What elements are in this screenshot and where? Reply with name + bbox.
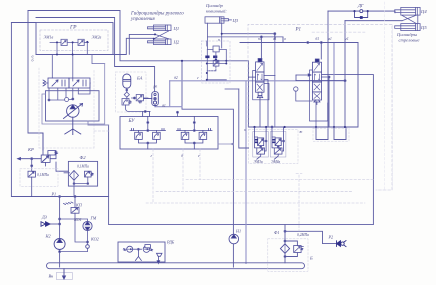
wire supply bus light <box>155 34 346 264</box>
wire port <box>207 63 227 65</box>
wire stub to BU <box>177 112 179 117</box>
wire ctrl dash 3 <box>146 202 365 204</box>
svg-text:б: б <box>32 58 35 63</box>
node n1 <box>48 99 50 101</box>
node r2 <box>274 33 276 35</box>
block dashed U box <box>313 128 349 141</box>
block dashed КР box <box>20 169 58 187</box>
block ГР solid box <box>36 23 113 55</box>
node e2 <box>265 140 267 142</box>
block dashed around <box>202 41 231 83</box>
filter Ф1 <box>280 244 289 254</box>
R1_BLOCK <box>218 24 392 190</box>
node g2 <box>72 41 74 43</box>
svg-text:ДЗ: ДЗ <box>41 215 47 220</box>
svg-text:0,2МПа: 0,2МПа <box>297 233 309 238</box>
wire bus a1 <box>240 34 358 59</box>
svg-text:в1: в1 <box>329 37 333 41</box>
svg-text:Ц5: Ц5 <box>420 25 427 30</box>
wire outer top loop to R1 <box>28 11 249 128</box>
node v3 <box>284 256 286 258</box>
valve upper box <box>213 46 219 52</box>
node u3 <box>147 142 149 144</box>
svg-text:Ц1: Ц1 <box>173 26 180 31</box>
svg-text:г1: г1 <box>346 37 349 41</box>
KR_F2 <box>18 133 98 197</box>
svg-text:Цилиндры: Цилиндры <box>396 32 417 37</box>
valve 2b <box>199 132 207 139</box>
svg-text:д2: д2 <box>174 76 178 80</box>
node k5 <box>221 33 223 35</box>
svg-text:х: х <box>243 128 246 132</box>
valve П1 pilot check <box>144 92 158 106</box>
wire boom piping <box>345 20 402 22</box>
wire БУ out right <box>218 143 234 145</box>
valve 1b <box>153 132 161 139</box>
node q6 <box>59 251 61 253</box>
valve Р1 left spool <box>249 59 276 128</box>
node q1 <box>74 196 76 198</box>
svg-text:ЭМ2в: ЭМ2в <box>92 35 102 40</box>
valve 2a <box>181 132 189 139</box>
svg-text:Р1: Р1 <box>51 192 57 197</box>
drain symbol <box>135 249 141 260</box>
svg-text:ГР: ГР <box>69 25 77 31</box>
node v1 <box>284 230 286 232</box>
svg-text:КО2: КО2 <box>90 237 99 242</box>
node u4 <box>193 122 195 124</box>
wire БА out <box>143 112 150 117</box>
valve lower box <box>213 60 219 66</box>
node k2 <box>225 63 227 65</box>
node q3 <box>59 218 61 220</box>
valve КП relief <box>64 197 80 221</box>
svg-text:д1: д1 <box>162 104 166 108</box>
wire dark staircase to pump H1 <box>182 61 233 267</box>
wire П1 drop <box>154 106 156 107</box>
wire X crossing steering <box>154 31 169 39</box>
block Р1 dashed box <box>248 24 392 190</box>
node d1 <box>353 10 355 12</box>
block НА solid box <box>46 91 100 121</box>
coupling Р2 <box>337 241 347 247</box>
svg-text:Р1: Р1 <box>295 28 302 33</box>
node g3 <box>86 41 88 43</box>
wire left vertical to KR <box>28 11 43 151</box>
node k1 <box>206 63 208 65</box>
block dashed ЭМ box <box>249 130 299 164</box>
wire pilot bus y127 <box>249 11 359 127</box>
node u6 <box>193 142 195 144</box>
wire x239 drop <box>239 89 249 148</box>
node b1 <box>133 97 135 99</box>
svg-text:ДГ: ДГ <box>357 3 364 8</box>
pump Н1 <box>229 234 239 244</box>
svg-text:ковшовый:: ковшовый: <box>206 9 227 14</box>
valve group 1 rail <box>130 117 166 150</box>
RDB_TANK <box>47 225 347 280</box>
node j2 <box>265 126 267 128</box>
wire return line bottom long <box>109 75 374 225</box>
valve ДЗ <box>41 222 60 227</box>
wire steering line 2 <box>129 34 155 54</box>
motor ГМ <box>83 221 92 230</box>
node e3 <box>277 146 279 148</box>
svg-text:п: п <box>218 38 220 42</box>
node u5 <box>193 130 195 132</box>
svg-text:0,1МПа: 0,1МПа <box>37 173 49 178</box>
valve ЭМ2в <box>78 39 89 45</box>
wire case line <box>88 121 109 125</box>
GR_BLOCK <box>32 23 114 82</box>
node e5 <box>271 126 273 128</box>
valve ЭМ1в <box>50 39 78 45</box>
wire ctrl dash 2 <box>156 190 352 192</box>
block Ф2 box <box>68 161 97 186</box>
valve БА charge <box>132 95 149 103</box>
svg-text:Б: Б <box>309 256 313 261</box>
pump Н2 <box>54 239 65 250</box>
gauge circle МН2 <box>294 87 298 91</box>
node q2 <box>87 241 89 243</box>
filter Ф2 diamond <box>70 171 79 181</box>
NA_BLOCK <box>39 55 109 149</box>
wire second loop to P1 <box>36 18 155 92</box>
svg-text:Ц2: Ц2 <box>173 40 180 45</box>
svg-text:е: е <box>198 154 200 158</box>
MAIN_LINES <box>11 11 373 268</box>
valve ЭМ4в <box>270 127 286 159</box>
node g4 <box>56 54 58 56</box>
svg-text:Ф2: Ф2 <box>80 155 87 160</box>
check valve triangle <box>214 58 218 61</box>
wire to Р2 <box>285 231 336 243</box>
block БУ box <box>120 117 218 150</box>
pump variable circle <box>64 104 83 119</box>
node kr1 <box>31 158 33 160</box>
svg-text:Ф1: Ф1 <box>274 230 279 235</box>
wire ctrl dash right frame <box>376 2 393 190</box>
wire left border <box>11 23 108 197</box>
svg-text:г: г <box>151 154 153 158</box>
P1_VALVE <box>144 76 199 117</box>
valve 01МПа relief <box>28 171 35 196</box>
wire pump drain <box>65 117 81 134</box>
node j0 <box>181 60 183 62</box>
BU_BLOCK <box>120 117 234 159</box>
wire ctrl dash small <box>94 130 109 132</box>
wire steering feed staircase <box>36 38 154 54</box>
wire U loops <box>316 127 346 140</box>
node q4 <box>59 196 61 198</box>
node r7 <box>344 80 346 82</box>
node k4 <box>206 79 208 81</box>
sensor ДГ <box>328 10 395 12</box>
svg-text:Вн: Вн <box>49 274 54 279</box>
node r3 <box>307 42 309 44</box>
wire ctrl dash 1 <box>186 179 374 181</box>
node p1 <box>154 98 156 100</box>
EM_CLUSTER <box>225 89 303 164</box>
svg-text:управления: управления <box>130 17 155 22</box>
valve Вн drain <box>57 269 73 280</box>
valve Р1 right spool <box>296 59 345 127</box>
cylinder Ц3 <box>205 17 232 23</box>
valve group 2 rail <box>177 117 213 150</box>
node s2 <box>153 38 155 40</box>
block БА dashed box <box>116 72 146 112</box>
cylinder Ц2 <box>148 39 172 45</box>
svg-text:ГМ: ГМ <box>90 216 97 221</box>
svg-text:в: в <box>284 37 286 41</box>
node e4 <box>283 140 285 142</box>
node kr2 <box>31 165 33 167</box>
check КО2 <box>86 245 90 249</box>
svg-text:КР: КР <box>27 147 34 152</box>
node u2 <box>147 130 149 132</box>
node q5 <box>59 223 61 225</box>
svg-text:0,1МПа: 0,1МПа <box>77 165 89 170</box>
DG_BOOM <box>328 3 427 43</box>
CYL_KOVSH <box>205 3 283 49</box>
node t1 <box>138 248 140 250</box>
valve БА unload <box>122 97 145 111</box>
node r5 <box>259 126 261 128</box>
wire КР branch down <box>31 159 33 172</box>
wire ctrl dash drops <box>152 149 154 203</box>
valve Ф2 bypass <box>85 171 94 177</box>
cylinder Ц1 <box>148 25 172 31</box>
node g5 <box>72 54 74 56</box>
svg-text:рп: рп <box>153 85 158 89</box>
wire Ф2 internals <box>64 173 88 196</box>
svg-text:БА: БА <box>136 76 143 81</box>
node g1 <box>56 41 58 43</box>
node u1 <box>147 122 149 124</box>
wire ГМ piping <box>60 219 88 252</box>
svg-text:а1: а1 <box>273 37 277 41</box>
node n2 <box>72 98 74 100</box>
svg-text:Р2: Р2 <box>328 235 334 240</box>
node p2 <box>177 111 179 113</box>
node j5 <box>333 126 335 128</box>
svg-text:Н1: Н1 <box>235 229 241 234</box>
valve РДБ left <box>124 246 142 252</box>
KP_GM_PUMPS <box>41 196 99 268</box>
breather funnel <box>157 253 163 263</box>
CYL_STEER <box>130 12 184 45</box>
wire Ц3 down <box>208 23 283 37</box>
svg-text:Ц4: Ц4 <box>420 9 427 14</box>
node b3 <box>144 111 146 113</box>
svg-text:ЭМ4в: ЭМ4в <box>271 160 281 164</box>
svg-text:КО1: КО1 <box>73 217 82 222</box>
node b2 <box>126 89 128 91</box>
svg-text:Ц3: Ц3 <box>232 18 239 23</box>
node j3 <box>284 126 286 128</box>
node s1 <box>154 33 156 35</box>
svg-text:д: д <box>181 154 183 158</box>
valve 1a <box>135 132 143 139</box>
svg-text:Гидроцилиндры рулевого: Гидроцилиндры рулевого <box>130 12 184 17</box>
svg-text:Цилиндр: Цилиндр <box>205 3 224 8</box>
wire regulator drops <box>49 55 105 101</box>
block ГР dashed box <box>40 30 108 51</box>
block dashed Б box <box>268 239 308 271</box>
valve ЭМ3в <box>253 127 269 159</box>
tank Б <box>47 263 305 269</box>
block НА dashed boundary <box>39 68 94 148</box>
svg-text:БУ: БУ <box>128 119 136 124</box>
wire ГР drops <box>52 42 87 81</box>
regulator valve body <box>43 78 90 88</box>
cylinder Ц4 <box>395 7 420 15</box>
valve КР reducing <box>18 133 69 171</box>
svg-text:ж: ж <box>299 130 303 134</box>
svg-text:ЭМ3в: ЭМ3в <box>254 160 264 164</box>
solenoid marks <box>206 56 209 57</box>
DASHED_CTRL <box>94 2 393 231</box>
node f1 <box>73 183 75 185</box>
wire Ф1 piping <box>285 225 297 263</box>
svg-text:б1: б1 <box>316 37 320 41</box>
svg-text:КП: КП <box>75 203 83 208</box>
KP1 assembly below Ц3 <box>202 41 231 83</box>
node d2 <box>367 10 369 12</box>
check diamond <box>124 92 129 97</box>
node r4 <box>320 42 322 44</box>
node j6 <box>344 126 346 128</box>
svg-text:е: е <box>197 76 199 80</box>
node r6 <box>328 76 330 78</box>
svg-text:РДБ: РДБ <box>166 240 175 245</box>
svg-text:ЭМ1в: ЭМ1в <box>44 35 54 40</box>
node j4 <box>315 126 317 128</box>
valve Ф1 bypass <box>294 246 304 253</box>
node r1 <box>260 36 262 38</box>
valve РДБ right <box>143 245 152 253</box>
check circle <box>65 98 69 102</box>
block РДБ box <box>118 242 165 262</box>
svg-text:стреловые: стреловые <box>399 38 420 43</box>
wire boom lines <box>327 11 329 127</box>
svg-text:Н2: Н2 <box>45 234 51 239</box>
node k6 <box>225 60 227 62</box>
wire X crossing boom <box>395 11 418 24</box>
cylinder Ц5 <box>395 24 420 31</box>
node e1 <box>260 146 262 148</box>
node j1 <box>253 126 255 128</box>
node k3 <box>206 72 208 74</box>
BA_BLOCK <box>116 72 150 117</box>
node f2 <box>87 183 89 185</box>
accumulator БА <box>123 74 131 92</box>
wire Н2 column <box>59 197 61 268</box>
node v2 <box>284 240 286 242</box>
